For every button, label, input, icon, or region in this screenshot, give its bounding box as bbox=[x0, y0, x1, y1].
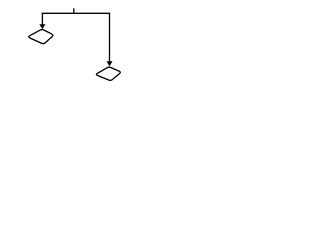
node B diamond bbox=[96, 67, 120, 80]
node A diamond bbox=[29, 30, 53, 44]
arrowhead left bbox=[39, 24, 45, 29]
arrowhead right bbox=[107, 61, 113, 66]
wire right drop bbox=[109, 13, 111, 61]
wire horizontal bus bbox=[42, 12, 109, 14]
wire stub from above bbox=[73, 8, 75, 13]
wire left drop bbox=[41, 13, 43, 24]
